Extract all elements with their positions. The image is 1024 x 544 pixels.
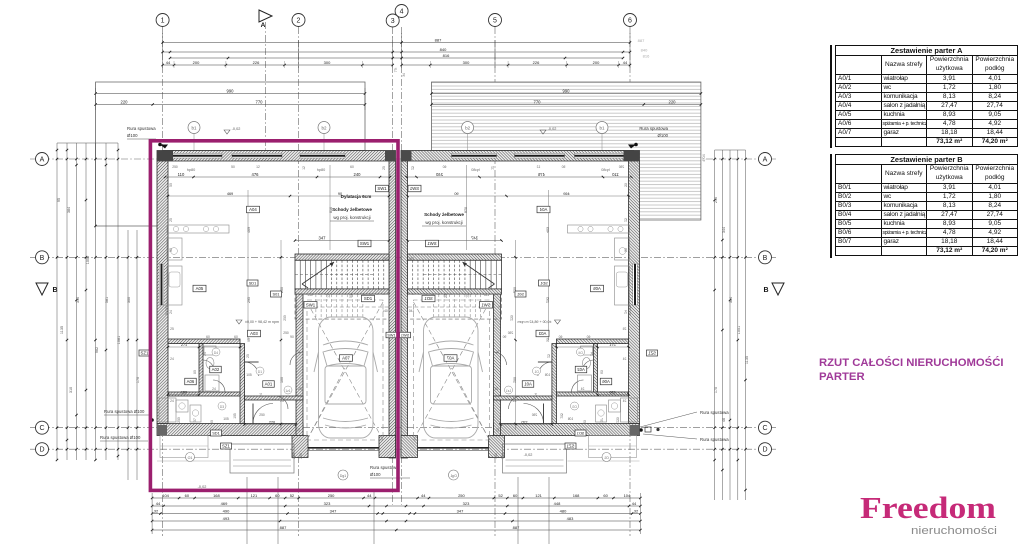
svg-text:816: 816 bbox=[643, 54, 650, 59]
svg-text:46: 46 bbox=[722, 418, 726, 422]
svg-text:44: 44 bbox=[156, 501, 161, 506]
svg-text:1000: 1000 bbox=[86, 256, 90, 264]
svg-text:104: 104 bbox=[162, 493, 169, 498]
svg-text:226: 226 bbox=[253, 60, 260, 65]
svg-text:121: 121 bbox=[251, 493, 258, 498]
svg-text:250: 250 bbox=[458, 493, 465, 498]
svg-text:990: 990 bbox=[227, 89, 235, 94]
svg-text:840: 840 bbox=[440, 47, 447, 52]
svg-text:Rura spustowa: Rura spustowa bbox=[700, 410, 729, 415]
svg-text:B: B bbox=[763, 287, 768, 294]
svg-text:C: C bbox=[39, 425, 44, 432]
svg-text:60: 60 bbox=[234, 335, 238, 339]
svg-text:250: 250 bbox=[292, 453, 296, 459]
svg-text:104: 104 bbox=[624, 493, 631, 498]
svg-text:250: 250 bbox=[172, 165, 178, 169]
svg-text:240: 240 bbox=[354, 172, 362, 177]
svg-text:240: 240 bbox=[714, 197, 718, 203]
svg-text:3: 3 bbox=[391, 18, 395, 25]
svg-text:962: 962 bbox=[95, 347, 99, 353]
svg-text:44: 44 bbox=[421, 493, 426, 498]
svg-text:44: 44 bbox=[367, 493, 372, 498]
svg-text:44: 44 bbox=[623, 60, 628, 65]
svg-text:25: 25 bbox=[169, 218, 173, 222]
svg-text:469: 469 bbox=[227, 192, 233, 196]
svg-text:816: 816 bbox=[443, 53, 450, 58]
svg-text:469: 469 bbox=[247, 227, 251, 233]
svg-text:110: 110 bbox=[178, 172, 185, 177]
svg-text:S01: S01 bbox=[273, 292, 280, 297]
svg-text:271: 271 bbox=[181, 343, 187, 347]
svg-text:887: 887 bbox=[638, 38, 645, 43]
svg-text:SW1: SW1 bbox=[377, 186, 387, 191]
svg-text:4: 4 bbox=[400, 9, 404, 16]
svg-text:-0,02: -0,02 bbox=[524, 453, 533, 457]
svg-text:Dylatacja 6cm: Dylatacja 6cm bbox=[341, 194, 372, 199]
svg-text:25: 25 bbox=[170, 327, 174, 331]
svg-text:105: 105 bbox=[223, 417, 229, 421]
svg-text:25: 25 bbox=[297, 428, 301, 432]
svg-text:1135: 1135 bbox=[745, 356, 749, 364]
svg-text:448: 448 bbox=[554, 501, 561, 506]
svg-text:77t: 77t bbox=[394, 68, 398, 73]
svg-text:Rura spustowa: Rura spustowa bbox=[370, 465, 399, 470]
svg-text:24: 24 bbox=[259, 393, 263, 397]
svg-text:1051: 1051 bbox=[737, 326, 741, 334]
svg-text:887: 887 bbox=[513, 525, 520, 530]
svg-text:121: 121 bbox=[535, 493, 542, 498]
svg-text:Rura spustowa: Rura spustowa bbox=[700, 437, 729, 442]
svg-text:SW1: SW1 bbox=[306, 302, 316, 307]
svg-text:323: 323 bbox=[463, 501, 470, 506]
svg-text:60: 60 bbox=[350, 165, 354, 169]
svg-text:250: 250 bbox=[283, 331, 289, 335]
svg-text:220: 220 bbox=[269, 421, 275, 425]
svg-text:770: 770 bbox=[256, 100, 264, 105]
svg-text:12: 12 bbox=[327, 294, 331, 298]
svg-text:25: 25 bbox=[298, 387, 302, 391]
svg-text:250: 250 bbox=[283, 315, 287, 321]
svg-text:887: 887 bbox=[280, 525, 287, 530]
svg-text:250: 250 bbox=[259, 413, 265, 417]
svg-text:250: 250 bbox=[382, 257, 388, 261]
svg-text:SZ1: SZ1 bbox=[222, 444, 230, 449]
svg-text:D3: D3 bbox=[220, 405, 224, 409]
svg-text:Schody żelbetowe: Schody żelbetowe bbox=[332, 207, 372, 212]
svg-text:nieruchomości: nieruchomości bbox=[911, 525, 997, 537]
svg-text:44: 44 bbox=[632, 501, 637, 506]
svg-text:80: 80 bbox=[210, 420, 214, 424]
svg-text:80: 80 bbox=[193, 370, 197, 374]
svg-text:493: 493 bbox=[223, 516, 230, 521]
svg-text:770: 770 bbox=[534, 100, 542, 105]
svg-text:B: B bbox=[763, 255, 768, 262]
svg-text:60: 60 bbox=[206, 335, 210, 339]
svg-text:347: 347 bbox=[319, 236, 327, 241]
svg-text:344: 344 bbox=[722, 227, 726, 233]
svg-text:347: 347 bbox=[457, 509, 464, 514]
svg-text:60: 60 bbox=[185, 493, 190, 498]
svg-text:323: 323 bbox=[324, 501, 331, 506]
svg-text:2: 2 bbox=[297, 18, 301, 25]
svg-text:Schody żelbetowe: Schody żelbetowe bbox=[424, 212, 464, 217]
svg-text:52: 52 bbox=[290, 493, 295, 498]
svg-text:150: 150 bbox=[181, 391, 187, 395]
svg-text:200: 200 bbox=[193, 60, 200, 65]
svg-text:105: 105 bbox=[246, 373, 252, 377]
svg-text:D4: D4 bbox=[214, 351, 218, 355]
svg-text:140: 140 bbox=[382, 309, 388, 313]
svg-text:168: 168 bbox=[213, 493, 220, 498]
svg-text:12: 12 bbox=[302, 166, 306, 170]
svg-text:310: 310 bbox=[69, 387, 73, 393]
svg-text:D1: D1 bbox=[258, 370, 262, 374]
svg-text:34: 34 bbox=[402, 73, 406, 77]
svg-text:168: 168 bbox=[573, 493, 580, 498]
svg-text:SW1: SW1 bbox=[387, 334, 395, 338]
svg-text:44: 44 bbox=[166, 60, 171, 65]
svg-text:SD1: SD1 bbox=[364, 296, 373, 301]
svg-text:95: 95 bbox=[57, 198, 61, 202]
svg-text:O1: O1 bbox=[188, 456, 193, 460]
svg-text:25: 25 bbox=[246, 354, 250, 358]
svg-text:490: 490 bbox=[223, 509, 230, 514]
svg-text:b2: b2 bbox=[465, 126, 471, 131]
svg-text:25: 25 bbox=[382, 166, 386, 170]
svg-text:4,04: 4,04 bbox=[702, 154, 706, 161]
svg-text:32: 32 bbox=[634, 509, 639, 514]
svg-text:50: 50 bbox=[169, 183, 173, 187]
svg-text:50: 50 bbox=[349, 294, 353, 298]
svg-text:469: 469 bbox=[221, 501, 228, 506]
svg-text:105: 105 bbox=[233, 413, 237, 419]
svg-text:990: 990 bbox=[563, 89, 571, 94]
svg-text:A: A bbox=[763, 157, 768, 164]
svg-text:581: 581 bbox=[105, 297, 109, 303]
svg-text:100: 100 bbox=[280, 377, 284, 383]
svg-text:-0,02: -0,02 bbox=[232, 127, 241, 131]
svg-text:347: 347 bbox=[330, 509, 337, 514]
svg-text:90: 90 bbox=[290, 335, 294, 339]
svg-text:840: 840 bbox=[641, 48, 648, 53]
svg-text:60: 60 bbox=[513, 493, 518, 498]
svg-text:340: 340 bbox=[76, 297, 80, 303]
svg-text:220: 220 bbox=[121, 100, 129, 105]
svg-text:24: 24 bbox=[170, 399, 174, 403]
svg-text:483: 483 bbox=[567, 516, 574, 521]
svg-text:250: 250 bbox=[177, 417, 181, 423]
svg-text:b1: b1 bbox=[599, 126, 605, 131]
svg-text:24: 24 bbox=[169, 310, 173, 314]
svg-text:24: 24 bbox=[170, 357, 174, 361]
svg-text:250: 250 bbox=[299, 453, 303, 459]
svg-text:A03: A03 bbox=[250, 331, 258, 336]
svg-text:D: D bbox=[39, 447, 44, 454]
svg-text:1081: 1081 bbox=[117, 336, 121, 344]
svg-text:wg proj. konstrukcji: wg proj. konstrukcji bbox=[333, 215, 370, 220]
svg-text:5: 5 bbox=[493, 18, 497, 25]
svg-text:Ø100: Ø100 bbox=[127, 133, 138, 138]
svg-text:476: 476 bbox=[252, 172, 260, 177]
svg-text:24: 24 bbox=[212, 387, 216, 391]
svg-text:±0,00 + 98,42 m npm: ±0,00 + 98,42 m npm bbox=[245, 320, 279, 324]
svg-text:170: 170 bbox=[714, 387, 718, 393]
svg-text:Ø100: Ø100 bbox=[657, 133, 668, 138]
svg-text:hp80: hp80 bbox=[187, 168, 195, 172]
svg-text:b2: b2 bbox=[321, 126, 327, 131]
svg-text:Rura spustowa Ø100: Rura spustowa Ø100 bbox=[104, 409, 145, 414]
svg-text:24: 24 bbox=[203, 352, 207, 356]
svg-text:32: 32 bbox=[154, 509, 159, 514]
svg-text:A05: A05 bbox=[196, 286, 204, 291]
svg-text:-0,02: -0,02 bbox=[548, 127, 557, 131]
svg-text:SZ1: SZ1 bbox=[141, 351, 149, 356]
svg-text:25: 25 bbox=[280, 399, 284, 403]
svg-text:90: 90 bbox=[247, 338, 251, 342]
svg-text:A04: A04 bbox=[249, 207, 257, 212]
svg-text:Dg1: Dg1 bbox=[340, 474, 346, 478]
svg-text:12: 12 bbox=[256, 165, 260, 169]
svg-text:226: 226 bbox=[533, 60, 540, 65]
svg-text:A: A bbox=[261, 22, 266, 29]
svg-text:295: 295 bbox=[247, 297, 251, 303]
svg-text:50: 50 bbox=[169, 248, 173, 252]
svg-text:90/250: 90/250 bbox=[165, 305, 169, 316]
svg-text:B: B bbox=[40, 255, 45, 262]
svg-text:300: 300 bbox=[463, 60, 470, 65]
svg-text:220: 220 bbox=[669, 100, 677, 105]
svg-text:37: 37 bbox=[193, 418, 197, 422]
svg-text:C: C bbox=[762, 425, 767, 432]
svg-text:Freedom: Freedom bbox=[860, 491, 996, 525]
svg-text:A06: A06 bbox=[187, 379, 195, 384]
svg-text:1: 1 bbox=[161, 18, 165, 25]
svg-text:364: 364 bbox=[729, 297, 733, 303]
svg-text:384: 384 bbox=[67, 207, 71, 213]
svg-text:50: 50 bbox=[231, 165, 235, 169]
svg-text:887: 887 bbox=[435, 38, 442, 43]
svg-text:b1: b1 bbox=[191, 126, 197, 131]
svg-text:A02: A02 bbox=[212, 367, 220, 372]
svg-text:480: 480 bbox=[560, 509, 567, 514]
svg-text:D: D bbox=[762, 447, 767, 454]
svg-text:SD1: SD1 bbox=[212, 431, 220, 436]
svg-text:52: 52 bbox=[498, 493, 503, 498]
svg-text:A01: A01 bbox=[265, 382, 273, 387]
svg-text:37: 37 bbox=[297, 350, 301, 354]
svg-text:SW1: SW1 bbox=[360, 241, 370, 246]
svg-text:A07: A07 bbox=[342, 356, 350, 361]
svg-text:200: 200 bbox=[593, 60, 600, 65]
svg-text:6: 6 bbox=[628, 18, 632, 25]
svg-text:Rura spustowa Ø100: Rura spustowa Ø100 bbox=[100, 435, 141, 440]
svg-text:hp80: hp80 bbox=[317, 168, 325, 172]
svg-text:Rura spustowa: Rura spustowa bbox=[127, 126, 156, 131]
svg-text:wg proj. konstrukcji: wg proj. konstrukcji bbox=[425, 220, 462, 225]
svg-text:1z1: 1z1 bbox=[285, 389, 290, 393]
svg-text:300: 300 bbox=[127, 297, 131, 303]
svg-text:SD1: SD1 bbox=[249, 281, 257, 286]
svg-text:170: 170 bbox=[136, 377, 140, 383]
svg-text:Rura spustowa: Rura spustowa bbox=[639, 126, 668, 131]
svg-text:-0,02: -0,02 bbox=[198, 485, 207, 489]
svg-text:60: 60 bbox=[603, 493, 608, 498]
svg-text:300: 300 bbox=[324, 60, 331, 65]
svg-text:140: 140 bbox=[307, 293, 313, 297]
svg-text:A: A bbox=[40, 157, 45, 164]
svg-text:250: 250 bbox=[328, 493, 335, 498]
svg-text:1135: 1135 bbox=[60, 326, 64, 334]
svg-text:Ø100: Ø100 bbox=[370, 472, 381, 477]
